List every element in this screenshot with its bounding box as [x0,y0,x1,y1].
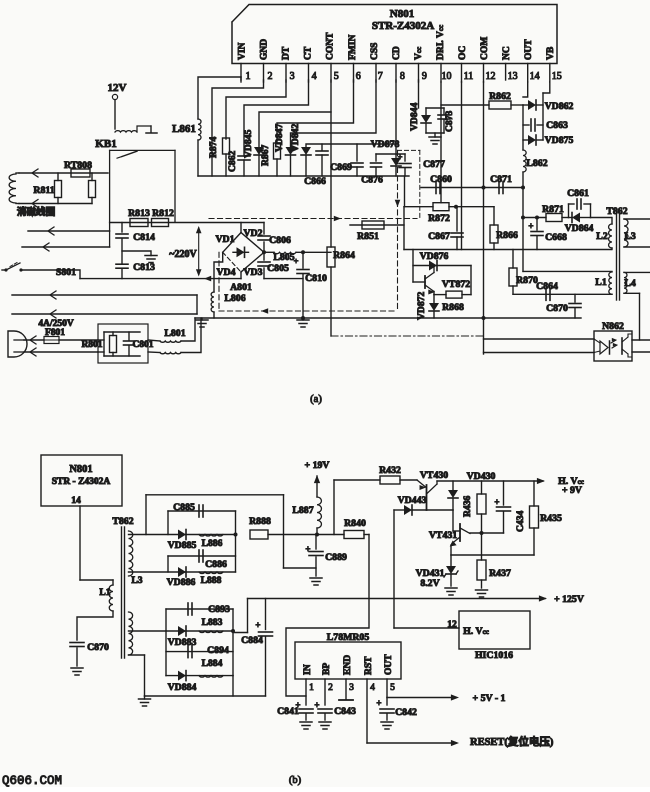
svg-text:BP: BP [322,663,332,675]
svg-text:H. Vcc: H. Vcc [463,626,489,637]
svg-text:L2: L2 [596,231,608,242]
svg-text:+ 5V - 1: + 5V - 1 [473,693,506,704]
svg-text:R801: R801 [81,340,102,350]
svg-text:消磁线圈: 消磁线圈 [17,206,56,218]
svg-text:RST: RST [364,656,374,675]
svg-text:R851: R851 [357,231,379,242]
svg-text:T862: T862 [112,516,133,527]
svg-text:15: 15 [552,71,562,82]
svg-text:3: 3 [290,71,295,82]
svg-text:KB1: KB1 [95,138,116,150]
svg-text:L1: L1 [99,587,110,598]
svg-text:CSS: CSS [370,43,380,60]
svg-text:R871: R871 [542,204,564,215]
svg-text:OUT: OUT [384,654,394,675]
svg-text:OC: OC [458,46,468,60]
svg-text:C876: C876 [361,175,383,186]
svg-text:C863: C863 [546,120,568,131]
svg-text:VD872: VD872 [416,292,427,320]
svg-text:5: 5 [390,683,395,693]
svg-text:L888: L888 [201,575,222,586]
svg-text:N801: N801 [390,8,414,20]
svg-text:L883: L883 [202,617,223,628]
svg-text:L3: L3 [131,575,142,586]
svg-text:C867: C867 [428,231,450,242]
svg-text:VD878: VD878 [371,139,400,150]
svg-text:Vcc: Vcc [414,47,424,60]
svg-text:C668: C668 [545,232,567,243]
svg-text:+ 19V: + 19V [305,460,330,471]
svg-text:13: 13 [508,71,518,82]
svg-text:STR-Z4302A: STR-Z4302A [372,20,434,32]
svg-text:VB: VB [546,46,556,60]
svg-text:N801: N801 [69,464,92,475]
svg-text:Q606.COM: Q606.COM [2,774,62,787]
svg-text:C885: C885 [173,502,195,513]
svg-text:VD443: VD443 [398,495,427,506]
svg-text:NC: NC [502,46,512,60]
svg-text:R866: R866 [496,230,518,241]
svg-text:C862: C862 [227,150,238,172]
svg-text:+: + [376,698,381,708]
svg-text:VD862: VD862 [545,101,574,112]
svg-text:VIN: VIN [238,42,248,60]
svg-text:C870: C870 [87,642,109,653]
svg-text:8.2V: 8.2V [420,578,439,589]
svg-text:C864: C864 [536,281,558,292]
svg-text:VD886: VD886 [167,577,196,588]
svg-text:GND: GND [260,39,270,60]
svg-text:C866: C866 [304,176,326,187]
svg-text:R437: R437 [489,568,511,579]
svg-text:VD844: VD844 [409,103,420,131]
svg-text:+ 9V: + 9V [562,485,582,496]
svg-text:R868: R868 [442,302,464,313]
svg-text:VD3: VD3 [243,267,262,278]
svg-text:C842: C842 [395,707,417,718]
svg-text:R867: R867 [260,144,271,166]
svg-text:+ 125V: + 125V [554,594,584,605]
svg-text:C877: C877 [423,159,445,170]
svg-text:+: + [294,256,299,266]
svg-text:IN: IN [303,664,313,675]
svg-text:R870: R870 [516,275,538,286]
svg-text:R436: R436 [462,495,473,517]
svg-text:VD842: VD842 [290,124,301,152]
svg-text:L78MR05: L78MR05 [327,632,370,643]
svg-text:C814: C814 [133,232,155,243]
svg-text:R874: R874 [208,136,219,158]
svg-text:14: 14 [71,495,81,506]
svg-text:C860: C860 [430,174,452,185]
svg-text:L805: L805 [273,252,294,263]
svg-text:+: + [398,152,403,162]
svg-text:T862: T862 [606,206,627,217]
svg-text:C434: C434 [515,510,526,532]
svg-text:C810: C810 [305,273,327,284]
svg-text:STR - Z4302A: STR - Z4302A [52,477,111,487]
svg-text:1: 1 [246,71,251,82]
svg-text:12: 12 [447,619,457,630]
svg-text:L884: L884 [202,658,223,669]
svg-text:7: 7 [378,71,383,82]
svg-text:VD845: VD845 [243,130,254,158]
svg-text:9: 9 [422,71,427,82]
svg-text:CD: CD [392,46,402,60]
svg-text:(a): (a) [310,394,322,405]
svg-text:C805: C805 [267,263,289,274]
svg-text:DT: DT [282,46,292,60]
svg-text:COM: COM [480,37,490,60]
svg-text:R872: R872 [428,213,450,224]
svg-text:S801: S801 [56,267,76,278]
svg-text:END: END [343,655,353,675]
svg-text:L1: L1 [595,277,607,288]
svg-text:C813: C813 [133,262,155,273]
svg-text:VT872: VT872 [442,279,470,290]
svg-text:L3: L3 [624,231,636,242]
svg-text:+: + [255,620,260,630]
svg-text:R435: R435 [540,513,562,524]
svg-text:RT808: RT808 [64,160,92,171]
svg-text:1: 1 [309,683,314,693]
svg-text:C841: C841 [277,706,299,717]
svg-text:R840: R840 [344,518,366,529]
svg-text:C886: C886 [205,559,227,570]
svg-text:10: 10 [441,71,451,82]
svg-text:VT430: VT430 [420,470,448,481]
svg-text:OUT: OUT [524,39,534,60]
svg-text:C884: C884 [241,635,263,646]
svg-text:8: 8 [400,71,405,82]
svg-text:VD864: VD864 [565,223,594,234]
svg-text:N862: N862 [602,321,624,332]
svg-text:5: 5 [334,71,339,82]
svg-text:2: 2 [328,683,333,693]
svg-text:L862: L862 [526,158,547,169]
svg-text:~220V: ~220V [169,249,197,260]
svg-text:R812: R812 [152,208,174,219]
svg-text:C871: C871 [490,174,512,185]
svg-text:+: + [528,221,533,231]
svg-text:R862: R862 [489,91,511,102]
svg-text:VD2: VD2 [243,228,262,239]
svg-text:14: 14 [530,71,540,82]
svg-text:L806: L806 [224,293,245,304]
svg-text:C843: C843 [334,706,356,717]
svg-text:12: 12 [486,71,496,82]
svg-text:C801: C801 [132,340,153,350]
svg-text:4: 4 [370,683,375,693]
svg-text:VD875: VD875 [545,135,574,146]
svg-text:L861: L861 [172,123,196,135]
svg-text:C893: C893 [208,604,230,615]
svg-text:2: 2 [268,71,273,82]
svg-text:6: 6 [356,71,361,82]
svg-text:C861: C861 [567,188,589,199]
svg-text:CT: CT [304,46,314,60]
svg-text:C869: C869 [330,162,352,173]
svg-text:L801: L801 [164,328,185,339]
svg-text:+: + [494,497,499,507]
svg-text:L886: L886 [202,538,223,549]
svg-text:VD847: VD847 [274,124,285,152]
svg-text:(b): (b) [289,775,302,786]
svg-text:C894: C894 [207,645,229,656]
svg-text:R888: R888 [249,516,271,527]
svg-text:DRI. Vcc: DRI. Vcc [436,25,446,60]
svg-text:C889: C889 [325,552,347,563]
svg-text:VT431: VT431 [429,530,457,541]
svg-text:R864: R864 [333,250,355,261]
svg-text:R432: R432 [379,465,401,476]
svg-text:VD1: VD1 [215,234,234,245]
svg-text:+: + [305,544,310,554]
svg-text:12V: 12V [108,82,127,94]
svg-text:L4: L4 [624,278,636,289]
svg-text:HIC1016: HIC1016 [475,650,513,661]
svg-text:CONT: CONT [326,32,336,60]
svg-text:C806: C806 [269,235,291,246]
svg-text:FMIN: FMIN [348,35,358,60]
svg-text:C873: C873 [444,110,455,132]
svg-text:L887: L887 [292,505,313,516]
svg-text:R811: R811 [33,185,54,196]
svg-text:R813: R813 [128,208,150,219]
svg-text:RESET(复位电压): RESET(复位电压) [470,735,554,748]
svg-text:VD885: VD885 [168,540,197,551]
svg-text:VD884: VD884 [168,682,197,693]
svg-text:4: 4 [312,71,317,82]
svg-text:VD876: VD876 [420,251,449,262]
svg-text:11: 11 [464,71,474,82]
svg-text:A801: A801 [230,282,252,293]
svg-text:3: 3 [349,683,354,693]
svg-text:C870: C870 [546,303,568,314]
